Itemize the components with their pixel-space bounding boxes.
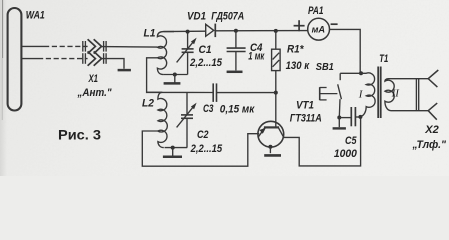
svg-text:PA1: PA1 bbox=[308, 5, 324, 17]
switch SB1 bbox=[339, 73, 341, 80]
inductor L1 bbox=[157, 32, 174, 75]
ground under X1 bbox=[118, 69, 131, 72]
transformer T1 winding I bbox=[340, 73, 375, 117]
top bus wire bbox=[163, 30, 205, 32]
svg-text:„Тлф.": „Тлф." bbox=[412, 139, 447, 151]
connector X2 fork top bbox=[428, 70, 438, 87]
page edge artifact bbox=[0, 0, 1, 1]
svg-text:L1: L1 bbox=[144, 28, 156, 40]
svg-text:0,15 мк: 0,15 мк bbox=[220, 103, 256, 115]
svg-text:„Ант.": „Ант." bbox=[77, 87, 112, 99]
node T1 top bbox=[359, 71, 363, 75]
wire L1 tap to lower tank bbox=[147, 58, 161, 93]
antenna WA1 bbox=[8, 8, 22, 111]
wire X1 to L1 tap bbox=[102, 46, 158, 49]
node L2 bottom bbox=[171, 146, 175, 150]
capacitor C3 bbox=[212, 83, 214, 102]
capacitor C1 (trimmer) bbox=[187, 32, 189, 49]
meter PA1 bbox=[308, 18, 330, 40]
svg-text:130 к: 130 к bbox=[286, 60, 311, 72]
transformer T1 winding II bbox=[385, 79, 428, 111]
connector X2 fork bottom bbox=[428, 103, 437, 120]
wire L2 tap to bottom rail bbox=[142, 131, 259, 166]
connector X1 chevrons bottom contact bbox=[88, 51, 96, 65]
capacitor C5 bbox=[339, 117, 351, 119]
capacitor C4 bbox=[234, 29, 238, 33]
capacitor C2 (trimmer) bbox=[186, 92, 188, 115]
ground under L1 bbox=[174, 75, 176, 83]
minus sign bbox=[331, 23, 338, 25]
node R1 bottom / base bbox=[274, 91, 278, 95]
paper background bbox=[0, 0, 449, 176]
wire feeder bottom bbox=[21, 58, 38, 60]
ground under L2 bbox=[172, 148, 174, 156]
inductor L2 bbox=[147, 92, 168, 147]
resistor R1 bbox=[274, 29, 278, 33]
transformer T1 core bbox=[377, 67, 379, 119]
node C5 left / ground bbox=[337, 116, 341, 120]
svg-text:VD1: VD1 bbox=[187, 10, 206, 22]
connector X2 body bars bbox=[415, 79, 417, 111]
ground under VT1 bbox=[264, 154, 281, 157]
svg-text:мА: мА bbox=[312, 24, 326, 34]
svg-text:C5: C5 bbox=[345, 135, 357, 147]
svg-text:X1: X1 bbox=[88, 73, 98, 85]
connector X1 body bars bbox=[82, 41, 84, 52]
wire feeder top bbox=[21, 45, 44, 47]
svg-text:Рис. 3: Рис. 3 bbox=[58, 126, 101, 142]
svg-text:X2: X2 bbox=[424, 124, 439, 136]
wire L2 bottom to C2 bbox=[165, 147, 188, 149]
collector diagonal bbox=[279, 128, 284, 137]
svg-text:1000: 1000 bbox=[334, 148, 358, 160]
connector X1 chevrons top contact bbox=[88, 39, 96, 53]
wire L1 bottom to C1 bbox=[164, 74, 188, 76]
ground under C4 bbox=[227, 71, 243, 74]
node L1 bottom bbox=[173, 73, 177, 77]
svg-text:II: II bbox=[391, 88, 401, 100]
svg-text:R1*: R1* bbox=[287, 44, 304, 56]
wire C3 to base node bbox=[217, 92, 276, 94]
svg-text:C2: C2 bbox=[197, 129, 209, 141]
wire collector to C5/T1 rail bbox=[284, 117, 361, 166]
wire X1 bottom to ground bbox=[102, 59, 125, 69]
svg-text:ГТ311А: ГТ311А bbox=[290, 113, 322, 125]
svg-text:ГД507А: ГД507А bbox=[211, 10, 244, 22]
svg-text:L2: L2 bbox=[142, 97, 155, 109]
transistor VT1 bbox=[258, 121, 284, 147]
svg-text:VT1: VT1 bbox=[296, 100, 314, 112]
svg-text:1 мк: 1 мк bbox=[248, 51, 265, 63]
svg-text:C1: C1 bbox=[199, 44, 212, 56]
svg-text:SB1: SB1 bbox=[316, 62, 334, 73]
svg-text:WA1: WA1 bbox=[26, 9, 45, 21]
svg-text:2,2...15: 2,2...15 bbox=[190, 143, 223, 155]
ground under SB1/C5 bbox=[333, 127, 346, 129]
plus sign bbox=[294, 25, 305, 27]
svg-text:2,2...15: 2,2...15 bbox=[189, 57, 222, 69]
svg-text:Т1: Т1 bbox=[379, 53, 388, 65]
svg-text:C3: C3 bbox=[203, 103, 214, 115]
emitter with arrow bbox=[258, 128, 264, 137]
wire C3 net bbox=[161, 91, 213, 93]
diode VD1 bbox=[206, 24, 214, 36]
emitter case node bbox=[268, 145, 272, 149]
